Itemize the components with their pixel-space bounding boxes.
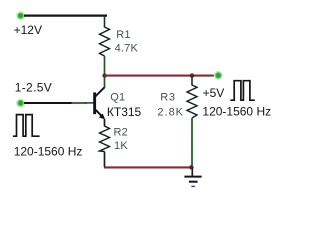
transistor Q1 body	[93, 87, 105, 119]
svg-text:R1: R1	[116, 29, 130, 41]
wire R3 bottom to ground (green vertical)	[191, 118, 193, 167]
svg-text:120-1560 Hz: 120-1560 Hz	[14, 144, 83, 158]
node +12V terminal	[16, 11, 25, 20]
resistor R3	[187, 85, 197, 118]
svg-text:4.7K: 4.7K	[115, 42, 139, 54]
pulse waveform icon right	[230, 81, 255, 101]
ground	[184, 167, 201, 186]
wire +12V rail (black horizontal)	[24, 15, 107, 17]
junction bottom rail / ground	[189, 165, 193, 169]
node input terminal 1-2.5V	[16, 99, 25, 108]
pulse waveform icon left	[13, 115, 40, 137]
svg-text:2.8K: 2.8K	[157, 107, 184, 119]
svg-text:+5V: +5V	[203, 86, 225, 100]
emitter arrow	[99, 114, 105, 120]
svg-text:1K: 1K	[114, 140, 128, 152]
junction collector/red-rail	[102, 73, 106, 77]
svg-text:120-1560 Hz: 120-1560 Hz	[202, 104, 271, 118]
emitter lead	[96, 110, 104, 119]
wire base input (black horizontal)	[24, 102, 73, 104]
resistor R2	[100, 126, 110, 152]
wire base green segment	[72, 102, 88, 104]
node +5V terminal	[214, 71, 223, 80]
wire emitter vertical	[104, 119, 106, 127]
wire R1 bottom to collector (green vertical)	[104, 56, 106, 88]
svg-text:R3: R3	[160, 92, 176, 104]
wire R3 top stub	[191, 77, 193, 86]
wire R1 top stub	[104, 16, 106, 28]
collector lead	[96, 87, 105, 96]
svg-text:+12V: +12V	[14, 23, 42, 37]
wire emitter bottom rail (dark red horizontal)	[104, 166, 192, 168]
svg-text:1-2.5V: 1-2.5V	[15, 81, 52, 95]
junction R3 top on rail	[190, 73, 194, 77]
wire R2 bottom stub	[104, 152, 106, 167]
resistor R1	[100, 27, 110, 56]
svg-text:Q1: Q1	[110, 91, 125, 103]
svg-text:КТ315: КТ315	[107, 105, 142, 119]
base bar	[93, 92, 96, 114]
wire +5V rail (dark red horizontal)	[105, 75, 217, 77]
svg-text:R2: R2	[114, 127, 128, 139]
wire base thin segment	[87, 102, 94, 104]
